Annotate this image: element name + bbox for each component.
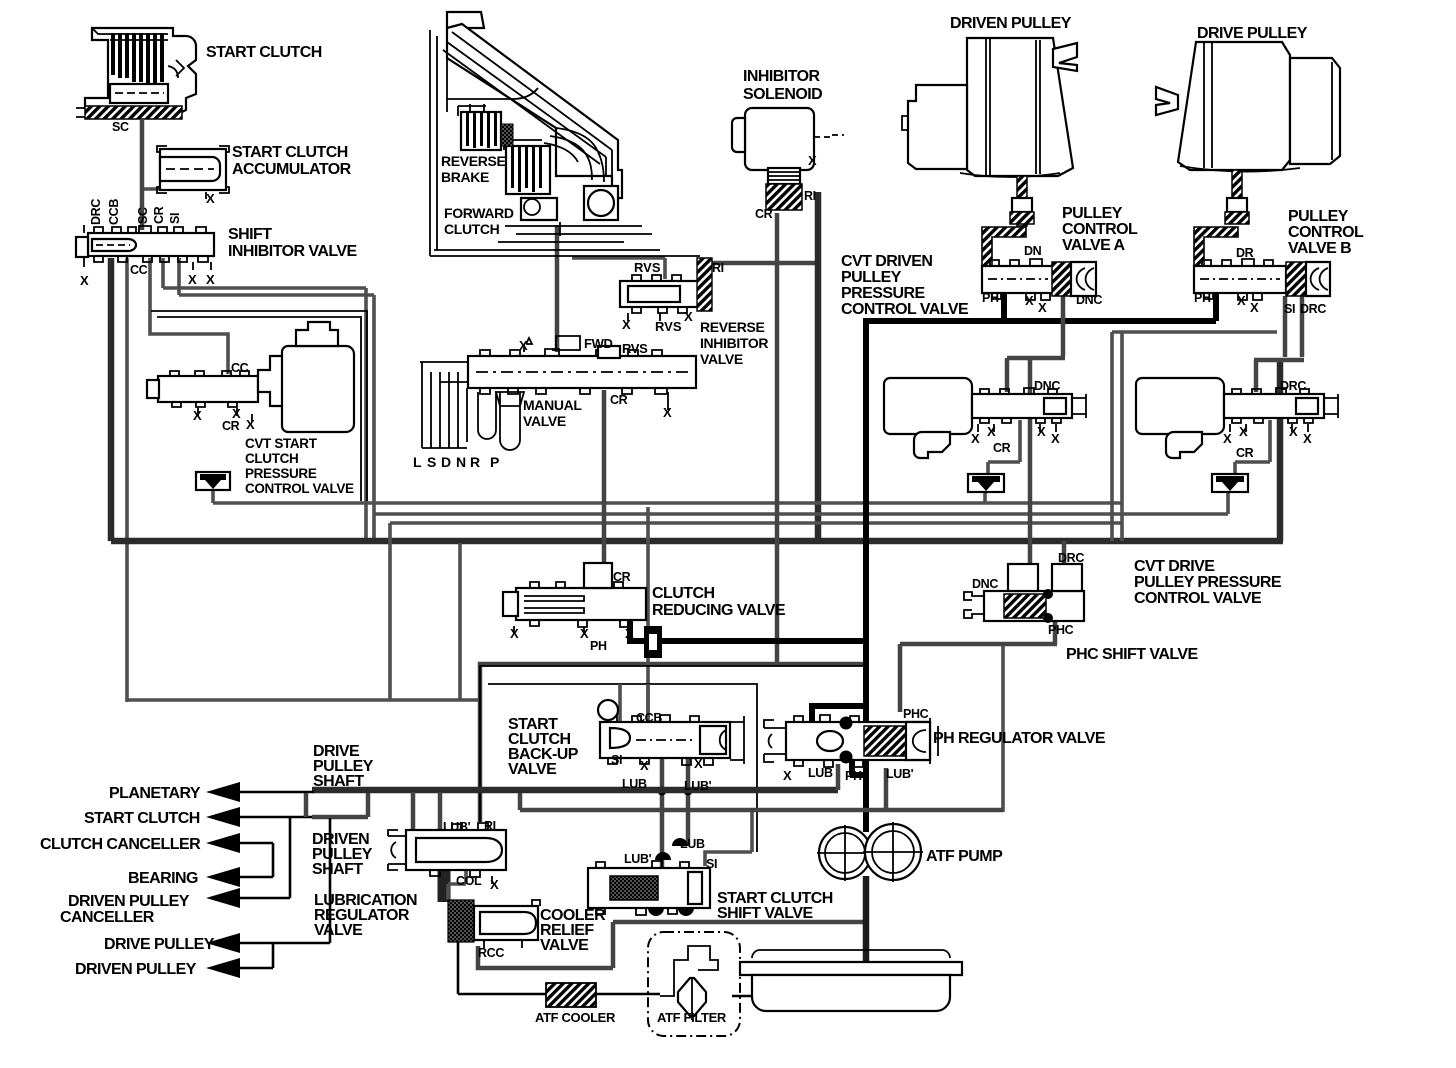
svg-text:X: X xyxy=(80,273,89,288)
wire ATF cooler line xyxy=(458,938,756,996)
svg-text:DNC: DNC xyxy=(1034,379,1060,393)
wire start clutch back-up valve box xyxy=(480,666,864,852)
svg-text:CR: CR xyxy=(755,207,773,221)
svg-text:X: X xyxy=(510,626,519,641)
svg-text:PULLEY PRESSURE: PULLEY PRESSURE xyxy=(1134,574,1282,591)
wire PHC line to PH regulator valve xyxy=(900,622,1057,712)
svg-text:DRC: DRC xyxy=(1058,551,1084,565)
svg-text:PH: PH xyxy=(982,291,999,305)
svg-text:FWD: FWD xyxy=(584,336,613,351)
wire driven pulley link xyxy=(238,943,273,968)
wire SI line start clutch shift valve xyxy=(705,812,752,866)
wire SIV ports bundle to SCPCV box edge xyxy=(163,258,374,295)
wire PH thick line from clutch reducing valve xyxy=(627,618,869,641)
wire LUB rail y790 xyxy=(312,787,838,794)
oil pan xyxy=(740,950,962,1011)
svg-text:REVERSE: REVERSE xyxy=(700,319,764,335)
svg-text:X: X xyxy=(188,272,197,287)
wire rail y523 xyxy=(390,521,1122,525)
svg-text:DRIVEN PULLEY: DRIVEN PULLEY xyxy=(950,15,1072,32)
drive pulley xyxy=(1156,42,1340,172)
svg-text:X: X xyxy=(1037,424,1046,439)
wire main rail right riser to pulley control valve B xyxy=(1277,358,1284,541)
bearing xyxy=(584,186,618,220)
svg-text:SC: SC xyxy=(136,207,150,224)
svg-text:PH REGULATOR VALVE: PH REGULATOR VALVE xyxy=(933,730,1106,747)
svg-text:CVT DRIVEN: CVT DRIVEN xyxy=(841,253,932,270)
svg-text:ATF FILTER: ATF FILTER xyxy=(657,1010,727,1025)
svg-text:RI: RI xyxy=(804,189,816,203)
wire CR line from inhibitor solenoid xyxy=(775,213,780,662)
svg-text:BEARING: BEARING xyxy=(128,870,198,887)
svg-text:COL: COL xyxy=(456,874,482,888)
svg-text:X: X xyxy=(622,317,631,332)
forward clutch plates xyxy=(501,124,550,194)
wire DNC continuation to PHC shift valve xyxy=(1028,358,1033,570)
svg-text:DNC: DNC xyxy=(1076,293,1102,307)
drive pulley shaft xyxy=(1225,170,1249,224)
svg-text:X: X xyxy=(1250,300,1259,315)
arrowheads output list xyxy=(206,782,240,978)
svg-text:L: L xyxy=(413,454,422,470)
svg-text:X: X xyxy=(684,309,693,324)
svg-text:CR: CR xyxy=(222,419,240,433)
shift inhibitor valve xyxy=(76,225,214,270)
svg-text:DRIVEN PULLEY: DRIVEN PULLEY xyxy=(68,893,190,910)
svg-text:RI: RI xyxy=(484,819,496,833)
svg-text:CLUTCH: CLUTCH xyxy=(245,451,298,466)
wire accumulator link xyxy=(144,176,166,190)
wire cooler relief box and rail y922 xyxy=(478,922,866,968)
svg-text:X: X xyxy=(206,191,215,206)
wire RI from reverse inhibitor valve elbow xyxy=(712,261,818,266)
start clutch back-up valve xyxy=(598,684,744,765)
svg-text:X: X xyxy=(1051,431,1060,446)
svg-text:R: R xyxy=(470,454,480,470)
svg-text:SHAFT: SHAFT xyxy=(312,861,363,878)
svg-text:START CLUTCH: START CLUTCH xyxy=(206,44,322,61)
wire driven pulley canceller riser xyxy=(238,818,290,898)
wire PH regulator elbow xyxy=(812,703,866,722)
svg-text:SI: SI xyxy=(706,857,717,871)
svg-text:PULLEY: PULLEY xyxy=(841,269,902,286)
svg-text:LUB': LUB' xyxy=(684,779,712,793)
svg-text:INHIBITOR: INHIBITOR xyxy=(700,335,768,351)
ATF pump xyxy=(817,822,923,882)
svg-text:DNC: DNC xyxy=(972,577,998,591)
svg-text:LUB': LUB' xyxy=(624,852,652,866)
CVT start clutch pressure control valve xyxy=(147,322,354,432)
svg-text:LUB': LUB' xyxy=(886,767,914,781)
wire clutch canceller to bearing xyxy=(238,843,273,877)
svg-text:CCB: CCB xyxy=(107,199,121,225)
svg-text:PHC: PHC xyxy=(1048,623,1074,637)
svg-text:MANUAL: MANUAL xyxy=(523,397,582,413)
PH regulator valve xyxy=(764,715,938,767)
ATF filter xyxy=(648,932,740,1036)
wire RI vertical xyxy=(815,192,822,541)
wire COL line xyxy=(438,868,451,902)
svg-text:DR: DR xyxy=(1236,246,1254,260)
svg-text:REVERSE: REVERSE xyxy=(441,153,505,169)
manual valve xyxy=(420,336,696,450)
driven pulley shaft xyxy=(1010,176,1034,226)
svg-text:VALVE B: VALVE B xyxy=(1288,240,1351,257)
piston small parts xyxy=(521,198,557,220)
svg-text:RVS: RVS xyxy=(622,341,648,356)
wire SC line from start clutch to shift inhibitor valve xyxy=(140,120,145,230)
svg-text:X: X xyxy=(1038,300,1047,315)
svg-text:CONTROL VALVE: CONTROL VALVE xyxy=(841,301,969,318)
svg-text:RVS: RVS xyxy=(655,319,682,334)
wire PH thick rail top xyxy=(863,318,1216,324)
reverse inhibitor valve xyxy=(620,258,712,321)
svg-text:DRIVEN PULLEY: DRIVEN PULLEY xyxy=(75,961,197,978)
wire main hatched rail xyxy=(111,538,1283,545)
svg-text:RVS: RVS xyxy=(634,260,661,275)
svg-text:X: X xyxy=(519,338,528,353)
svg-text:X: X xyxy=(1303,431,1312,446)
svg-text:SHIFT VALVE: SHIFT VALVE xyxy=(717,905,813,922)
svg-text:CLUTCH: CLUTCH xyxy=(652,585,714,602)
wire riser x390 xyxy=(390,523,460,700)
svg-text:RCC: RCC xyxy=(478,946,504,960)
svg-text:X: X xyxy=(206,272,215,287)
wire box around CVT drive PCV xyxy=(1112,332,1277,541)
svg-text:INHIBITOR VALVE: INHIBITOR VALVE xyxy=(228,243,358,260)
svg-text:X: X xyxy=(580,626,589,641)
reverse brake plates xyxy=(458,104,501,150)
svg-text:CANCELLER: CANCELLER xyxy=(60,909,155,926)
svg-text:START CLUTCH: START CLUTCH xyxy=(232,144,348,161)
svg-text:X: X xyxy=(1289,424,1298,439)
start clutch shift valve xyxy=(588,838,710,916)
svg-text:LUB: LUB xyxy=(808,766,833,780)
check valve under CVT start clutch PCV xyxy=(196,472,230,490)
wire rail y505 xyxy=(213,490,1228,514)
wire DNC from pulley control valve A down to CVT driven PCV xyxy=(1007,292,1065,392)
svg-text:SI: SI xyxy=(611,753,622,767)
svg-text:X: X xyxy=(783,768,792,783)
svg-text:VALVE: VALVE xyxy=(700,351,743,367)
wire PH stub pulley control valve A xyxy=(1001,292,1007,321)
svg-text:CR: CR xyxy=(993,441,1011,455)
svg-text:PULLEY: PULLEY xyxy=(1062,205,1123,222)
svg-text:CLUTCH: CLUTCH xyxy=(444,221,500,237)
start clutch xyxy=(76,28,196,119)
svg-text:CONTROL: CONTROL xyxy=(1062,221,1138,238)
wire LUB rail elbow to PH regulator LUB xyxy=(836,764,841,790)
svg-text:X: X xyxy=(1237,293,1246,308)
svg-text:INHIBITOR: INHIBITOR xyxy=(743,68,821,85)
CVT driven pulley pressure control valve xyxy=(884,378,1086,458)
svg-text:LUB': LUB' xyxy=(443,820,471,834)
svg-text:X: X xyxy=(987,424,996,439)
svg-text:X: X xyxy=(1025,293,1034,308)
svg-text:CR: CR xyxy=(1236,446,1254,460)
svg-text:VALVE: VALVE xyxy=(314,922,363,939)
check valve CVT driven PCV xyxy=(968,474,1004,492)
svg-text:SC: SC xyxy=(112,120,129,134)
svg-text:CCB: CCB xyxy=(636,711,662,725)
wire PH regulator PH port xyxy=(850,756,866,775)
svg-text:SHIFT: SHIFT xyxy=(228,226,272,243)
svg-text:START CLUTCH: START CLUTCH xyxy=(84,810,200,827)
svg-text:CR: CR xyxy=(610,393,628,407)
start clutch accumulator xyxy=(157,146,229,199)
wire PH main vertical xyxy=(863,324,869,832)
svg-text:PLANETARY: PLANETARY xyxy=(109,785,201,802)
svg-text:X: X xyxy=(1223,431,1232,446)
lubrication regulator valve xyxy=(388,823,506,884)
wire CC line to CVT start clutch PCV xyxy=(150,258,228,374)
svg-text:N: N xyxy=(456,454,466,470)
wire SCPCV box right edge risers xyxy=(366,288,374,541)
wire rail y664 and riser x480 to lubrication regulator valve RI xyxy=(480,664,866,822)
wire DRC from main rail to PHC shift valve xyxy=(1062,541,1067,570)
cooler relief valve xyxy=(448,900,540,948)
wire start clutch gray segment xyxy=(306,793,368,817)
svg-text:DN: DN xyxy=(1024,244,1042,258)
svg-text:DRIVE PULLEY: DRIVE PULLEY xyxy=(1197,25,1308,42)
svg-text:PH: PH xyxy=(845,769,862,783)
svg-text:P: P xyxy=(490,454,499,470)
svg-text:DRC: DRC xyxy=(1300,302,1326,316)
svg-text:CR: CR xyxy=(613,570,631,584)
svg-text:PRESSURE: PRESSURE xyxy=(245,466,317,481)
pulley control valve B xyxy=(1194,227,1330,300)
wire CR port CVT drive PCV xyxy=(1235,420,1270,476)
wire start clutch arrow line xyxy=(238,816,312,819)
svg-text:X: X xyxy=(1239,424,1248,439)
wire rail y700 xyxy=(127,698,480,702)
svg-text:X: X xyxy=(490,877,499,892)
wire CCB vertical x126 xyxy=(125,258,129,702)
svg-text:PH: PH xyxy=(590,639,607,653)
svg-text:X: X xyxy=(640,758,649,773)
svg-text:DRIVE PULLEY: DRIVE PULLEY xyxy=(104,936,215,953)
svg-text:PH: PH xyxy=(1194,291,1211,305)
svg-text:PULLEY: PULLEY xyxy=(1288,208,1349,225)
svg-text:RI: RI xyxy=(712,261,724,275)
svg-text:VALVE: VALVE xyxy=(540,937,589,954)
svg-text:FORWARD: FORWARD xyxy=(444,205,514,221)
svg-text:CONTROL VALVE: CONTROL VALVE xyxy=(245,481,354,496)
driven pulley xyxy=(902,38,1077,177)
wire LUB lines from back-up valve xyxy=(662,758,688,868)
svg-text:X: X xyxy=(663,405,672,420)
svg-text:CVT START: CVT START xyxy=(245,436,318,451)
wire forward clutch to manual valve xyxy=(555,225,560,352)
svg-text:DRC: DRC xyxy=(89,199,103,225)
PHC shift valve xyxy=(964,564,1084,623)
svg-text:CC: CC xyxy=(130,263,148,277)
svg-text:LUB: LUB xyxy=(622,777,647,791)
wire DRC feed pulley control valve B to CVT drive PCV xyxy=(1254,296,1304,392)
svg-text:SI: SI xyxy=(168,213,182,224)
svg-text:ATF PUMP: ATF PUMP xyxy=(926,848,1003,865)
wire CR line manual valve to clutch reducing valve xyxy=(602,390,607,565)
wire pump suction xyxy=(863,876,870,1000)
svg-text:X: X xyxy=(971,431,980,446)
wire CCB riser to start clutch back-up valve xyxy=(646,507,650,718)
svg-text:SOLENOID: SOLENOID xyxy=(743,86,822,103)
pulley control valve A xyxy=(982,227,1096,300)
wire reverse brake to reverse inhibitor valve xyxy=(572,258,665,279)
svg-text:X: X xyxy=(246,417,255,432)
svg-text:LUB: LUB xyxy=(680,837,705,851)
svg-text:CONTROL VALVE: CONTROL VALVE xyxy=(1134,590,1262,607)
ATF cooler xyxy=(546,983,596,1007)
svg-text:X: X xyxy=(808,153,817,168)
svg-text:ACCUMULATOR: ACCUMULATOR xyxy=(232,161,352,178)
wire PH stub pulley control valve B xyxy=(1213,292,1219,321)
svg-text:VALVE: VALVE xyxy=(523,413,566,429)
svg-text:X: X xyxy=(193,408,202,423)
svg-text:D: D xyxy=(441,454,451,470)
CVT drive pulley pressure control valve xyxy=(1136,378,1338,458)
svg-text:ATF COOLER: ATF COOLER xyxy=(535,1010,616,1025)
wire drive pulley riser xyxy=(238,818,330,943)
check valve CVT drive PCV xyxy=(1212,474,1248,492)
svg-text:SHAFT: SHAFT xyxy=(313,773,364,790)
svg-text:CONTROL: CONTROL xyxy=(1288,224,1364,241)
inhibitor solenoid xyxy=(732,108,844,210)
wire planetary arrow line xyxy=(238,791,314,794)
svg-text:PHC: PHC xyxy=(903,707,929,721)
svg-text:PHC SHIFT VALVE: PHC SHIFT VALVE xyxy=(1066,646,1198,663)
svg-text:CVT DRIVE: CVT DRIVE xyxy=(1134,558,1215,575)
svg-text:CR: CR xyxy=(152,206,166,224)
wire CR port CVT driven PCV xyxy=(988,420,1020,476)
svg-text:DRC: DRC xyxy=(1280,379,1306,393)
wire left DRC rail down from shift inhibitor valve xyxy=(108,258,115,541)
svg-text:SI: SI xyxy=(1284,302,1295,316)
forward clutch and reverse brake assembly xyxy=(430,12,700,256)
svg-text:X: X xyxy=(625,626,634,641)
svg-text:CC: CC xyxy=(231,361,249,375)
wire rail y812 xyxy=(520,768,1003,810)
orifice on PH line xyxy=(644,626,662,658)
svg-text:S: S xyxy=(427,454,436,470)
wire box around CVT start clutch pressure control valve xyxy=(151,311,367,501)
svg-text:REDUCING VALVE: REDUCING VALVE xyxy=(652,602,786,619)
svg-text:CLUTCH CANCELLER: CLUTCH CANCELLER xyxy=(40,836,201,853)
svg-text:BRAKE: BRAKE xyxy=(441,169,489,185)
wire right riser x1003 xyxy=(1001,646,1005,812)
svg-text:VALVE: VALVE xyxy=(508,761,557,778)
svg-text:PRESSURE: PRESSURE xyxy=(841,285,926,302)
svg-text:X: X xyxy=(694,756,703,771)
clutch reducing valve xyxy=(503,563,646,635)
svg-text:VALVE A: VALVE A xyxy=(1062,237,1126,254)
